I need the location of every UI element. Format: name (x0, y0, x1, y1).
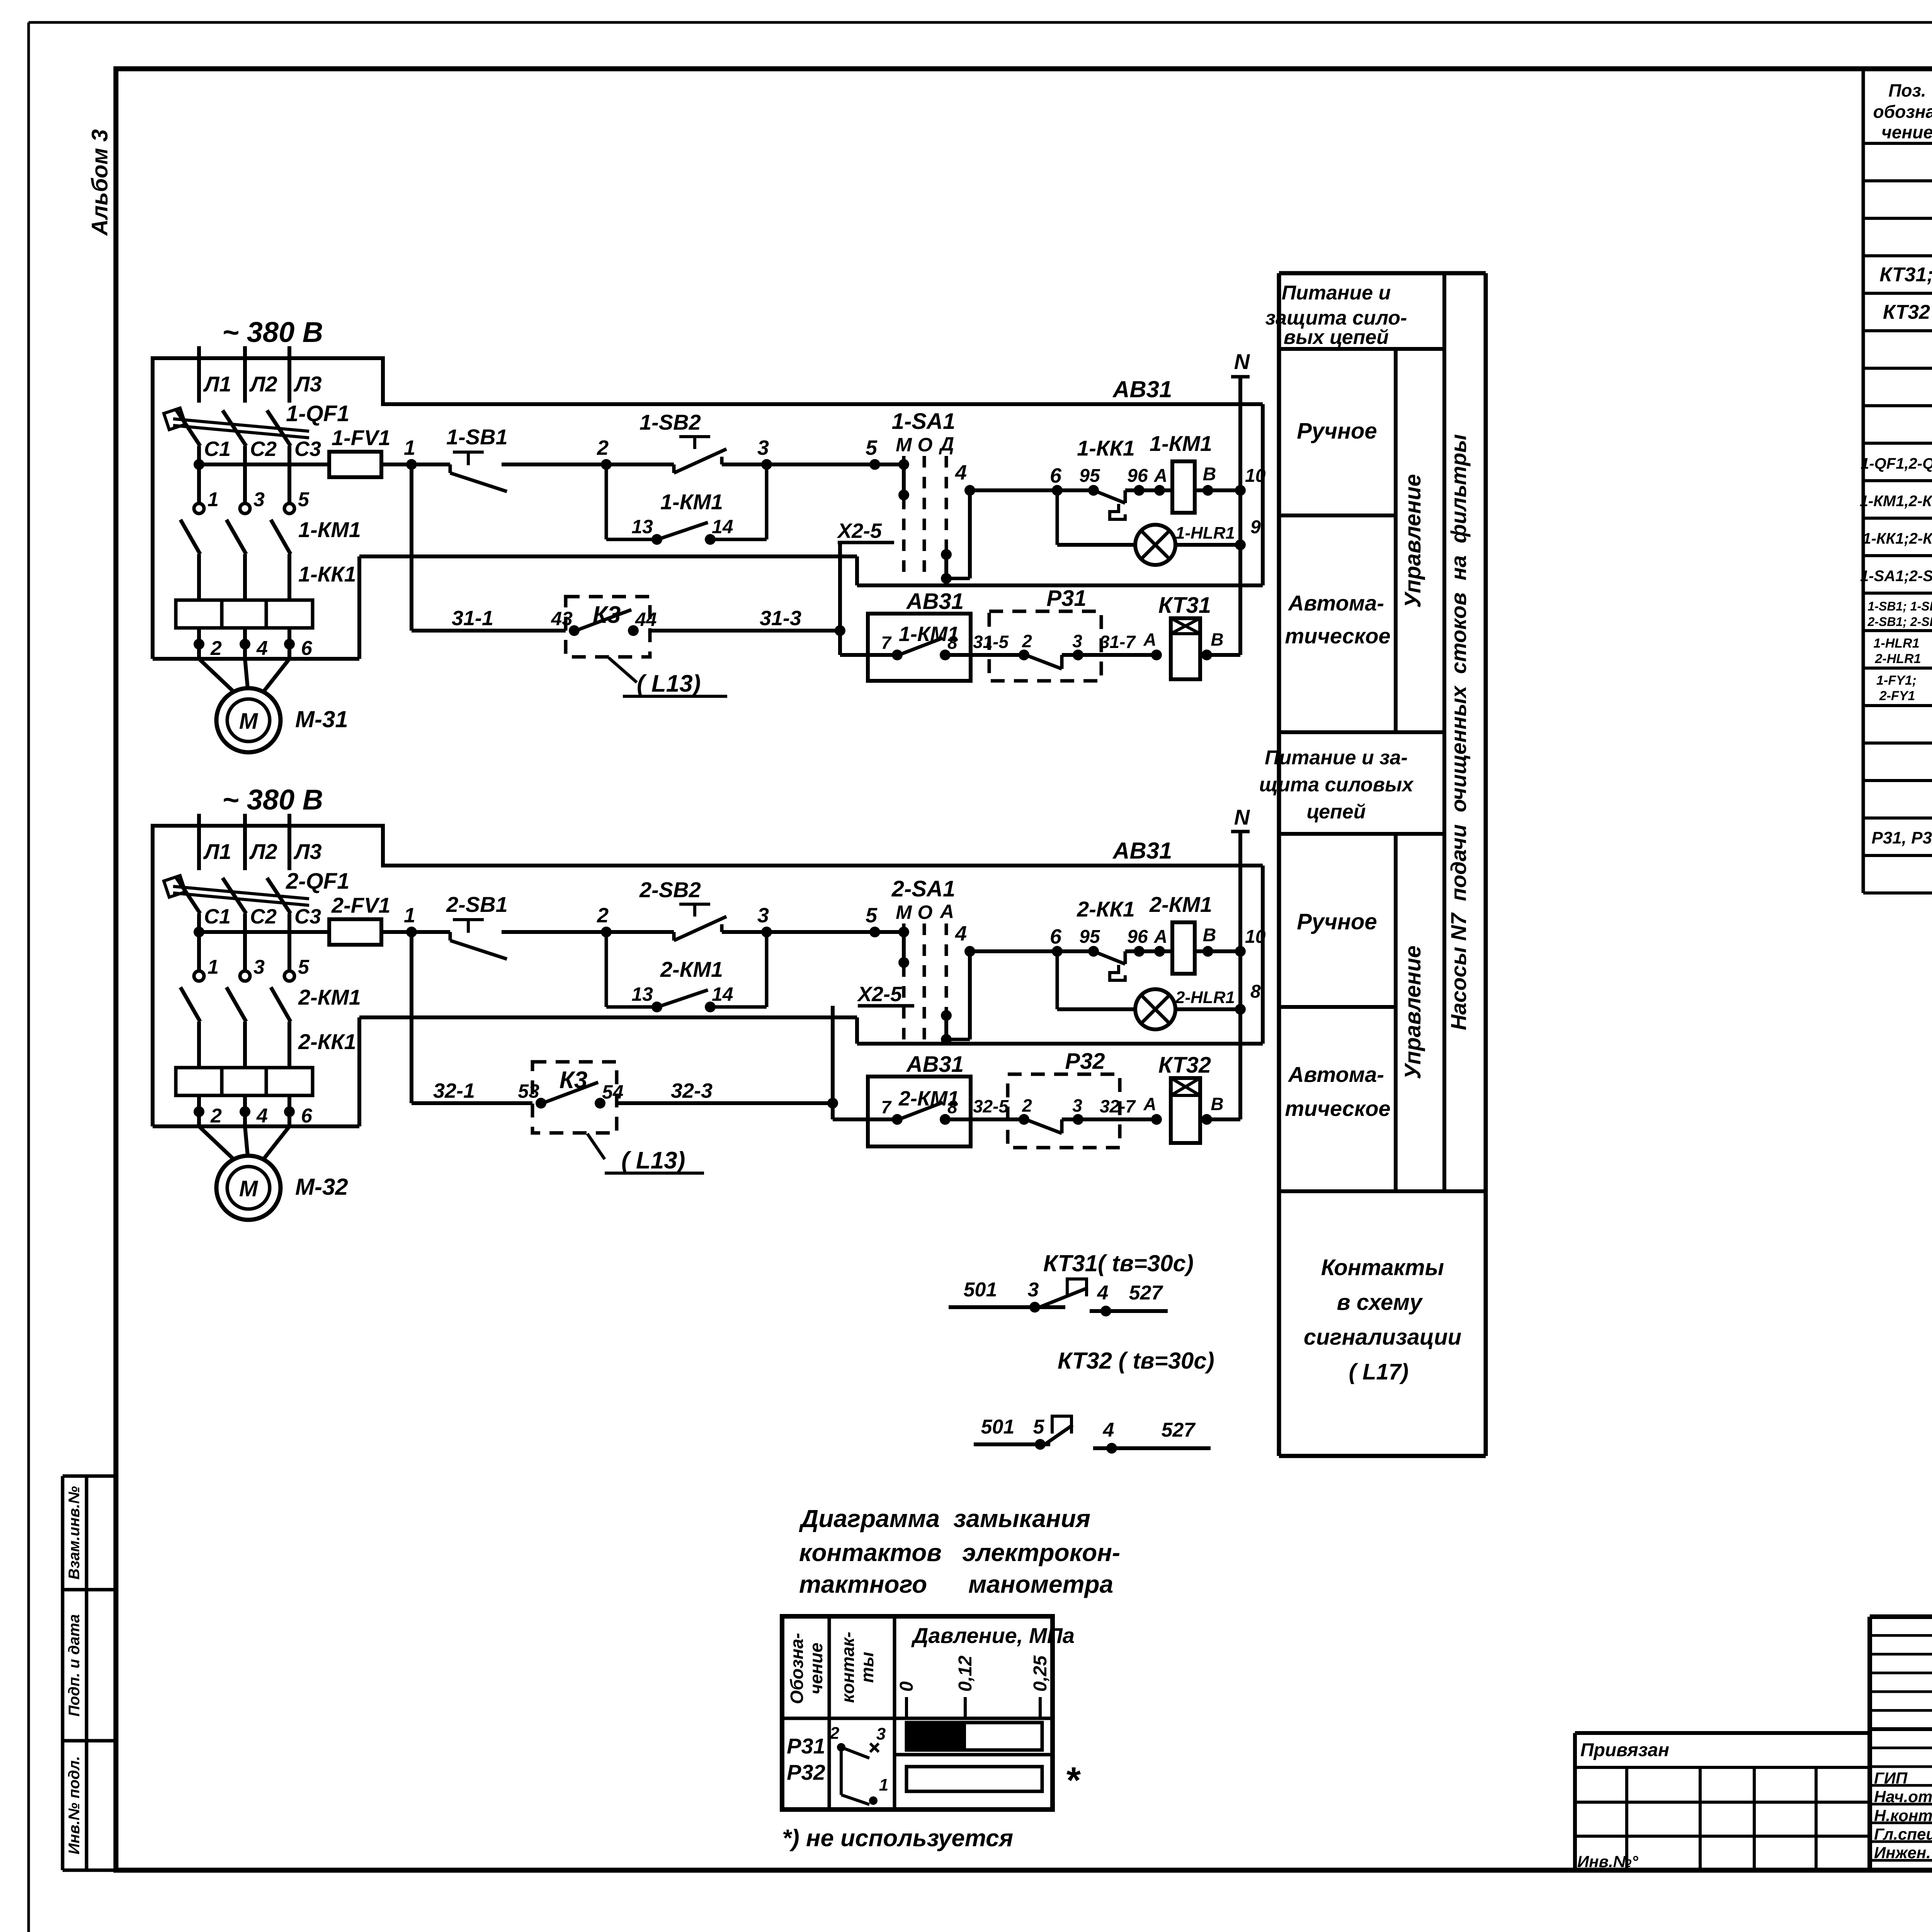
svg-text:1-SB1: 1-SB1 (446, 425, 508, 449)
svg-text:Инжен.: Инжен. (1874, 1844, 1931, 1862)
svg-text:0,25: 0,25 (1030, 1655, 1051, 1692)
svg-text:В: В (1211, 1094, 1223, 1114)
svg-text:2-КК1: 2-КК1 (298, 1029, 356, 1054)
svg-text:6: 6 (1050, 925, 1062, 948)
svg-text:5: 5 (866, 904, 878, 927)
svg-text:С1: С1 (204, 437, 231, 461)
svg-text:Л2: Л2 (249, 839, 277, 864)
svg-text:М: М (896, 434, 912, 456)
svg-text:Автома-: Автома- (1287, 1062, 1384, 1087)
svg-text:32-5: 32-5 (973, 1096, 1009, 1116)
svg-text:А: А (1143, 629, 1156, 650)
svg-text:31-7: 31-7 (1100, 632, 1136, 652)
svg-text:Д: Д (939, 433, 954, 455)
svg-text:1-КМ1,2-КМ1: 1-КМ1,2-КМ1 (1860, 493, 1932, 510)
svg-text:1: 1 (207, 956, 219, 978)
svg-text:Автома-: Автома- (1287, 591, 1384, 615)
svg-text:2-SB1: 2-SB1 (446, 892, 508, 917)
svg-text:95: 95 (1079, 466, 1100, 486)
svg-text:2-FY1: 2-FY1 (1879, 689, 1915, 703)
svg-text:О: О (918, 434, 933, 456)
svg-text:~ 380 В: ~ 380 В (222, 316, 323, 348)
svg-text:N: N (1234, 349, 1250, 374)
svg-text:контактов электрокон-: контактов электрокон- (799, 1539, 1120, 1566)
svg-text:С2: С2 (250, 905, 277, 928)
svg-text:2: 2 (597, 904, 609, 927)
svg-text:10: 10 (1245, 927, 1266, 947)
svg-text:КТ31: КТ31 (1158, 593, 1211, 618)
svg-text:1-HLR1: 1-HLR1 (1175, 524, 1235, 543)
svg-text:Насосы N7 подачи очищенных: Насосы N7 подачи очищенных стоков на фил… (1446, 434, 1471, 1031)
svg-text:сигнализации: сигнализации (1304, 1325, 1461, 1350)
svg-text:2: 2 (830, 1724, 840, 1743)
svg-text:Р31: Р31 (787, 1734, 825, 1758)
svg-text:Давление, МПа: Давление, МПа (911, 1623, 1075, 1648)
svg-text:Л2: Л2 (249, 372, 277, 396)
svg-text:95: 95 (1079, 927, 1100, 947)
svg-text:0,12: 0,12 (955, 1655, 976, 1692)
svg-text:3: 3 (253, 956, 265, 978)
svg-text:тическое: тическое (1285, 624, 1390, 648)
svg-text:2-QF1: 2-QF1 (286, 869, 349, 894)
svg-text:2-SB2: 2-SB2 (639, 878, 701, 902)
svg-text:2-HLR1: 2-HLR1 (1175, 988, 1235, 1007)
svg-text:2-SA1: 2-SA1 (891, 876, 955, 901)
svg-text:0: 0 (896, 1681, 917, 1692)
svg-text:Р31, Р32: Р31, Р32 (1871, 828, 1932, 847)
svg-text:АВ31: АВ31 (906, 1052, 964, 1077)
svg-text:Контакты: Контакты (1321, 1255, 1444, 1280)
svg-text:1-КК1;2-КК1: 1-КК1;2-КК1 (1862, 530, 1932, 547)
svg-text:Ручное: Ручное (1297, 418, 1377, 444)
svg-text:1-КК1: 1-КК1 (298, 562, 356, 586)
svg-text:2-HLR1: 2-HLR1 (1874, 651, 1921, 666)
svg-text:1-КМ1: 1-КМ1 (1150, 431, 1212, 456)
svg-text:Управление: Управление (1400, 474, 1425, 608)
svg-text:Нач.отд.: Нач.отд. (1874, 1787, 1932, 1806)
svg-text:32-7: 32-7 (1100, 1096, 1136, 1116)
svg-text:1-FV1: 1-FV1 (332, 425, 391, 450)
svg-text:АВ31: АВ31 (906, 589, 964, 614)
svg-text:контак-: контак- (838, 1632, 858, 1703)
svg-text:КТ31( tв=30с): КТ31( tв=30с) (1043, 1250, 1194, 1276)
svg-text:Х2-5: Х2-5 (857, 983, 902, 1006)
svg-text:501: 501 (981, 1416, 1015, 1438)
svg-text:13: 13 (631, 983, 653, 1005)
svg-text:С1: С1 (204, 905, 231, 928)
svg-text:Гл.спец: Гл.спец (1874, 1825, 1932, 1843)
svg-text:96: 96 (1127, 466, 1148, 486)
svg-text:Р32: Р32 (1065, 1049, 1105, 1074)
svg-text:Альбом 3: Альбом 3 (87, 129, 112, 236)
svg-text:2: 2 (210, 637, 222, 660)
svg-text:М: М (896, 901, 912, 923)
svg-text:1-QF1,2-QF1: 1-QF1,2-QF1 (1861, 455, 1932, 472)
svg-text:вых цепей: вых цепей (1284, 326, 1389, 349)
svg-text:14: 14 (712, 516, 733, 537)
svg-text:3: 3 (1072, 1095, 1082, 1116)
svg-text:М: М (239, 709, 259, 734)
svg-text:4: 4 (955, 461, 967, 484)
svg-text:С3: С3 (294, 905, 321, 928)
svg-text:Подп. и дата: Подп. и дата (66, 1614, 83, 1717)
svg-text:32-1: 32-1 (433, 1079, 475, 1102)
svg-text:С3: С3 (294, 437, 321, 461)
svg-text:6: 6 (301, 1105, 313, 1127)
svg-text:31-5: 31-5 (973, 632, 1009, 652)
svg-text:2: 2 (1022, 631, 1032, 651)
svg-text:Л3: Л3 (293, 839, 322, 864)
svg-text:( L17): ( L17) (1349, 1359, 1409, 1384)
svg-text:С2: С2 (250, 437, 277, 461)
svg-text:Поз.: Поз. (1888, 80, 1926, 100)
svg-text:1-SA1: 1-SA1 (892, 409, 955, 434)
svg-text:Питание и: Питание и (1282, 282, 1391, 304)
svg-text:3: 3 (757, 436, 769, 459)
svg-text:31-3: 31-3 (760, 607, 801, 630)
svg-text:3: 3 (757, 904, 769, 927)
svg-text:Р31: Р31 (1046, 586, 1086, 611)
svg-text:10: 10 (1245, 466, 1266, 486)
svg-text:1: 1 (879, 1776, 888, 1794)
svg-text:43: 43 (551, 608, 573, 629)
svg-text:N: N (1234, 805, 1250, 829)
svg-text:4: 4 (955, 922, 967, 945)
svg-text:2-КМ1: 2-КМ1 (298, 985, 361, 1009)
svg-text:Питание и за-: Питание и за- (1265, 747, 1408, 769)
svg-text:Н.контр.: Н.контр. (1874, 1806, 1932, 1825)
svg-text:М-31: М-31 (295, 706, 348, 732)
svg-text:в схему: в схему (1337, 1290, 1423, 1315)
svg-text:2-SB1; 2-SB2: 2-SB1; 2-SB2 (1867, 615, 1932, 629)
svg-text:Взам.инв.№: Взам.инв.№ (66, 1486, 83, 1580)
svg-text:ты: ты (857, 1652, 877, 1683)
svg-text:чение: чение (806, 1643, 826, 1694)
svg-text:М-32: М-32 (295, 1174, 348, 1200)
svg-text:Обозна-: Обозна- (787, 1633, 807, 1704)
svg-text:*) не используется: *) не используется (782, 1825, 1013, 1852)
svg-text:В: В (1211, 629, 1223, 650)
svg-text:9: 9 (1250, 517, 1261, 537)
svg-text:цепей: цепей (1307, 801, 1366, 823)
svg-text:31-1: 31-1 (452, 607, 493, 630)
svg-text:АВ31: АВ31 (1112, 838, 1172, 864)
svg-text:13: 13 (631, 516, 653, 537)
svg-text:1-SB1; 1-SB2: 1-SB1; 1-SB2 (1868, 599, 1932, 613)
svg-text:1: 1 (404, 436, 415, 459)
svg-text:7: 7 (881, 633, 892, 653)
svg-text:( L13): ( L13) (637, 670, 701, 697)
svg-text:1-QF1: 1-QF1 (286, 401, 349, 426)
svg-text:53: 53 (518, 1080, 539, 1102)
svg-text:501: 501 (964, 1279, 997, 1301)
svg-text:5: 5 (298, 488, 310, 511)
svg-text:2: 2 (597, 436, 609, 459)
svg-text:Л3: Л3 (293, 372, 322, 396)
svg-text:1-FY1;: 1-FY1; (1876, 673, 1917, 688)
svg-text:2: 2 (1022, 1095, 1032, 1116)
svg-text:КТ32: КТ32 (1883, 301, 1930, 323)
svg-text:М: М (239, 1176, 259, 1201)
svg-text:1-КМ1: 1-КМ1 (660, 490, 723, 514)
svg-text:1-КК1: 1-КК1 (1077, 436, 1135, 460)
svg-text:527: 527 (1162, 1419, 1196, 1441)
svg-text:2-КМ1: 2-КМ1 (660, 957, 723, 981)
svg-text:3: 3 (1028, 1279, 1039, 1301)
svg-text:6: 6 (301, 637, 313, 660)
svg-text:К3: К3 (560, 1067, 588, 1094)
svg-text:А: А (1154, 466, 1168, 486)
svg-text:В: В (1203, 464, 1216, 485)
svg-text:2-КК1: 2-КК1 (1077, 897, 1135, 921)
svg-text:96: 96 (1127, 927, 1148, 947)
svg-text:Х2-5: Х2-5 (837, 519, 882, 543)
svg-text:обозна-: обозна- (1873, 102, 1932, 122)
svg-text:КТ32: КТ32 (1158, 1053, 1211, 1078)
svg-text:1-HLR1: 1-HLR1 (1873, 636, 1919, 651)
svg-text:*: * (1065, 1760, 1081, 1801)
svg-text:В: В (1203, 925, 1216, 946)
svg-text:8: 8 (947, 633, 957, 653)
svg-text:ГИП: ГИП (1874, 1769, 1908, 1787)
svg-text:1: 1 (404, 904, 415, 927)
svg-text:2-FV1: 2-FV1 (331, 893, 391, 917)
svg-text:4: 4 (256, 637, 268, 660)
svg-text:32-3: 32-3 (671, 1079, 713, 1102)
svg-text:5: 5 (866, 436, 878, 459)
svg-text:8: 8 (947, 1097, 957, 1117)
svg-text:1-SA1;2-SA1: 1-SA1;2-SA1 (1860, 568, 1932, 585)
svg-text:5: 5 (298, 956, 310, 978)
svg-text:О: О (918, 901, 933, 923)
svg-text:Диаграмма замыкания: Диаграмма замыкания (799, 1505, 1090, 1532)
svg-text:чение: чение (1881, 122, 1932, 142)
svg-text:3: 3 (876, 1725, 886, 1743)
svg-text:Л1: Л1 (203, 372, 231, 396)
svg-text:1-КМ1: 1-КМ1 (298, 517, 361, 542)
svg-text:1: 1 (207, 488, 219, 511)
svg-text:КТ31;: КТ31; (1879, 264, 1932, 286)
svg-text:щита силовых: щита силовых (1259, 774, 1414, 796)
svg-text:3: 3 (253, 488, 265, 511)
svg-text:Инв.№°: Инв.№° (1577, 1852, 1639, 1871)
svg-text:54: 54 (602, 1081, 624, 1103)
svg-text:2-КМ1: 2-КМ1 (1149, 892, 1212, 917)
svg-text:А: А (1154, 927, 1168, 947)
svg-text:3: 3 (1072, 631, 1082, 651)
svg-text:А: А (939, 901, 954, 922)
svg-text:5: 5 (1033, 1416, 1045, 1438)
svg-text:2: 2 (210, 1105, 222, 1127)
svg-text:( L13): ( L13) (621, 1147, 685, 1174)
svg-text:6: 6 (1050, 464, 1062, 487)
svg-text:4: 4 (1097, 1282, 1109, 1304)
svg-text:14: 14 (712, 983, 733, 1005)
svg-text:Привязан: Привязан (1580, 1740, 1669, 1760)
svg-text:4: 4 (1103, 1419, 1114, 1441)
svg-text:Ручное: Ручное (1297, 909, 1377, 934)
svg-text:АВ31: АВ31 (1112, 376, 1172, 402)
svg-text:1-SB2: 1-SB2 (639, 410, 701, 434)
svg-text:Р32: Р32 (787, 1760, 825, 1784)
svg-text:8: 8 (1250, 981, 1261, 1002)
svg-text:Инв.№ подл.: Инв.№ подл. (66, 1756, 83, 1855)
svg-text:Управление: Управление (1400, 946, 1425, 1079)
svg-text:К3: К3 (593, 602, 621, 628)
svg-text:~ 380 В: ~ 380 В (222, 784, 323, 816)
svg-text:4: 4 (256, 1105, 268, 1127)
svg-text:тактного манометра: тактного манометра (799, 1570, 1113, 1598)
svg-text:А: А (1143, 1094, 1156, 1114)
svg-text:тическое: тическое (1285, 1096, 1390, 1121)
svg-text:КТ32 ( tв=30с): КТ32 ( tв=30с) (1058, 1348, 1214, 1374)
svg-text:44: 44 (635, 609, 657, 630)
svg-text:7: 7 (881, 1097, 892, 1117)
svg-text:527: 527 (1129, 1282, 1163, 1304)
svg-text:Л1: Л1 (203, 839, 231, 864)
